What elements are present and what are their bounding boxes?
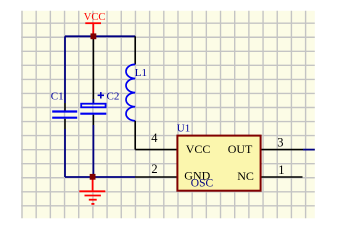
capacitor C1 top pin (64, 103, 66, 111)
op-amp U1 box (177, 136, 260, 191)
ground symbol (79, 178, 105, 204)
svg-text:1: 1 (278, 163, 284, 177)
svg-text:OSC: OSC (191, 177, 214, 189)
svg-text:U1: U1 (177, 123, 190, 135)
sheet grid (21, 11, 315, 219)
svg-text:NC: NC (237, 169, 254, 183)
svg-text:L1: L1 (135, 67, 147, 79)
svg-text:C1: C1 (51, 91, 64, 103)
sheet background (21, 11, 315, 219)
wire left vertical to C1 (64, 36, 66, 103)
inductor L1 coil (126, 64, 135, 120)
wire bottom rail (65, 176, 135, 178)
svg-text:OUT: OUT (228, 142, 253, 156)
inductor L1 bottom pin (134, 121, 136, 150)
svg-text:4: 4 (151, 131, 158, 145)
capacitor C2 bottom pin (92, 115, 94, 125)
pin 4 line (135, 149, 177, 151)
wire pin 3 stub (303, 149, 315, 151)
wire C2 to ground rail (92, 125, 94, 177)
svg-text:VCC: VCC (84, 12, 106, 23)
svg-text:C2: C2 (107, 91, 120, 103)
capacitor C2 plus sign (98, 92, 104, 98)
wire C1 to ground rail (64, 129, 66, 177)
junction VCC node (91, 33, 97, 39)
pin 3 line (262, 149, 304, 151)
VCC power port (84, 12, 106, 34)
svg-text:2: 2 (151, 162, 157, 176)
wire top horizontal (VCC rail) (65, 35, 135, 37)
inductor L1 top pin (134, 36, 136, 64)
capacitor C1 bottom pin (64, 119, 66, 129)
pin 2 line (135, 176, 177, 178)
capacitor C2 polarized top plate (81, 104, 105, 108)
wire VCC junction to C2 (92, 36, 94, 99)
pin 1 line (262, 176, 303, 178)
svg-text:VCC: VCC (186, 142, 211, 156)
svg-text:3: 3 (277, 136, 283, 150)
capacitor C1 (52, 112, 77, 118)
capacitor C2 bottom plate (80, 113, 106, 115)
capacitor C2 top pin (92, 99, 94, 104)
junction ground node (90, 174, 96, 180)
